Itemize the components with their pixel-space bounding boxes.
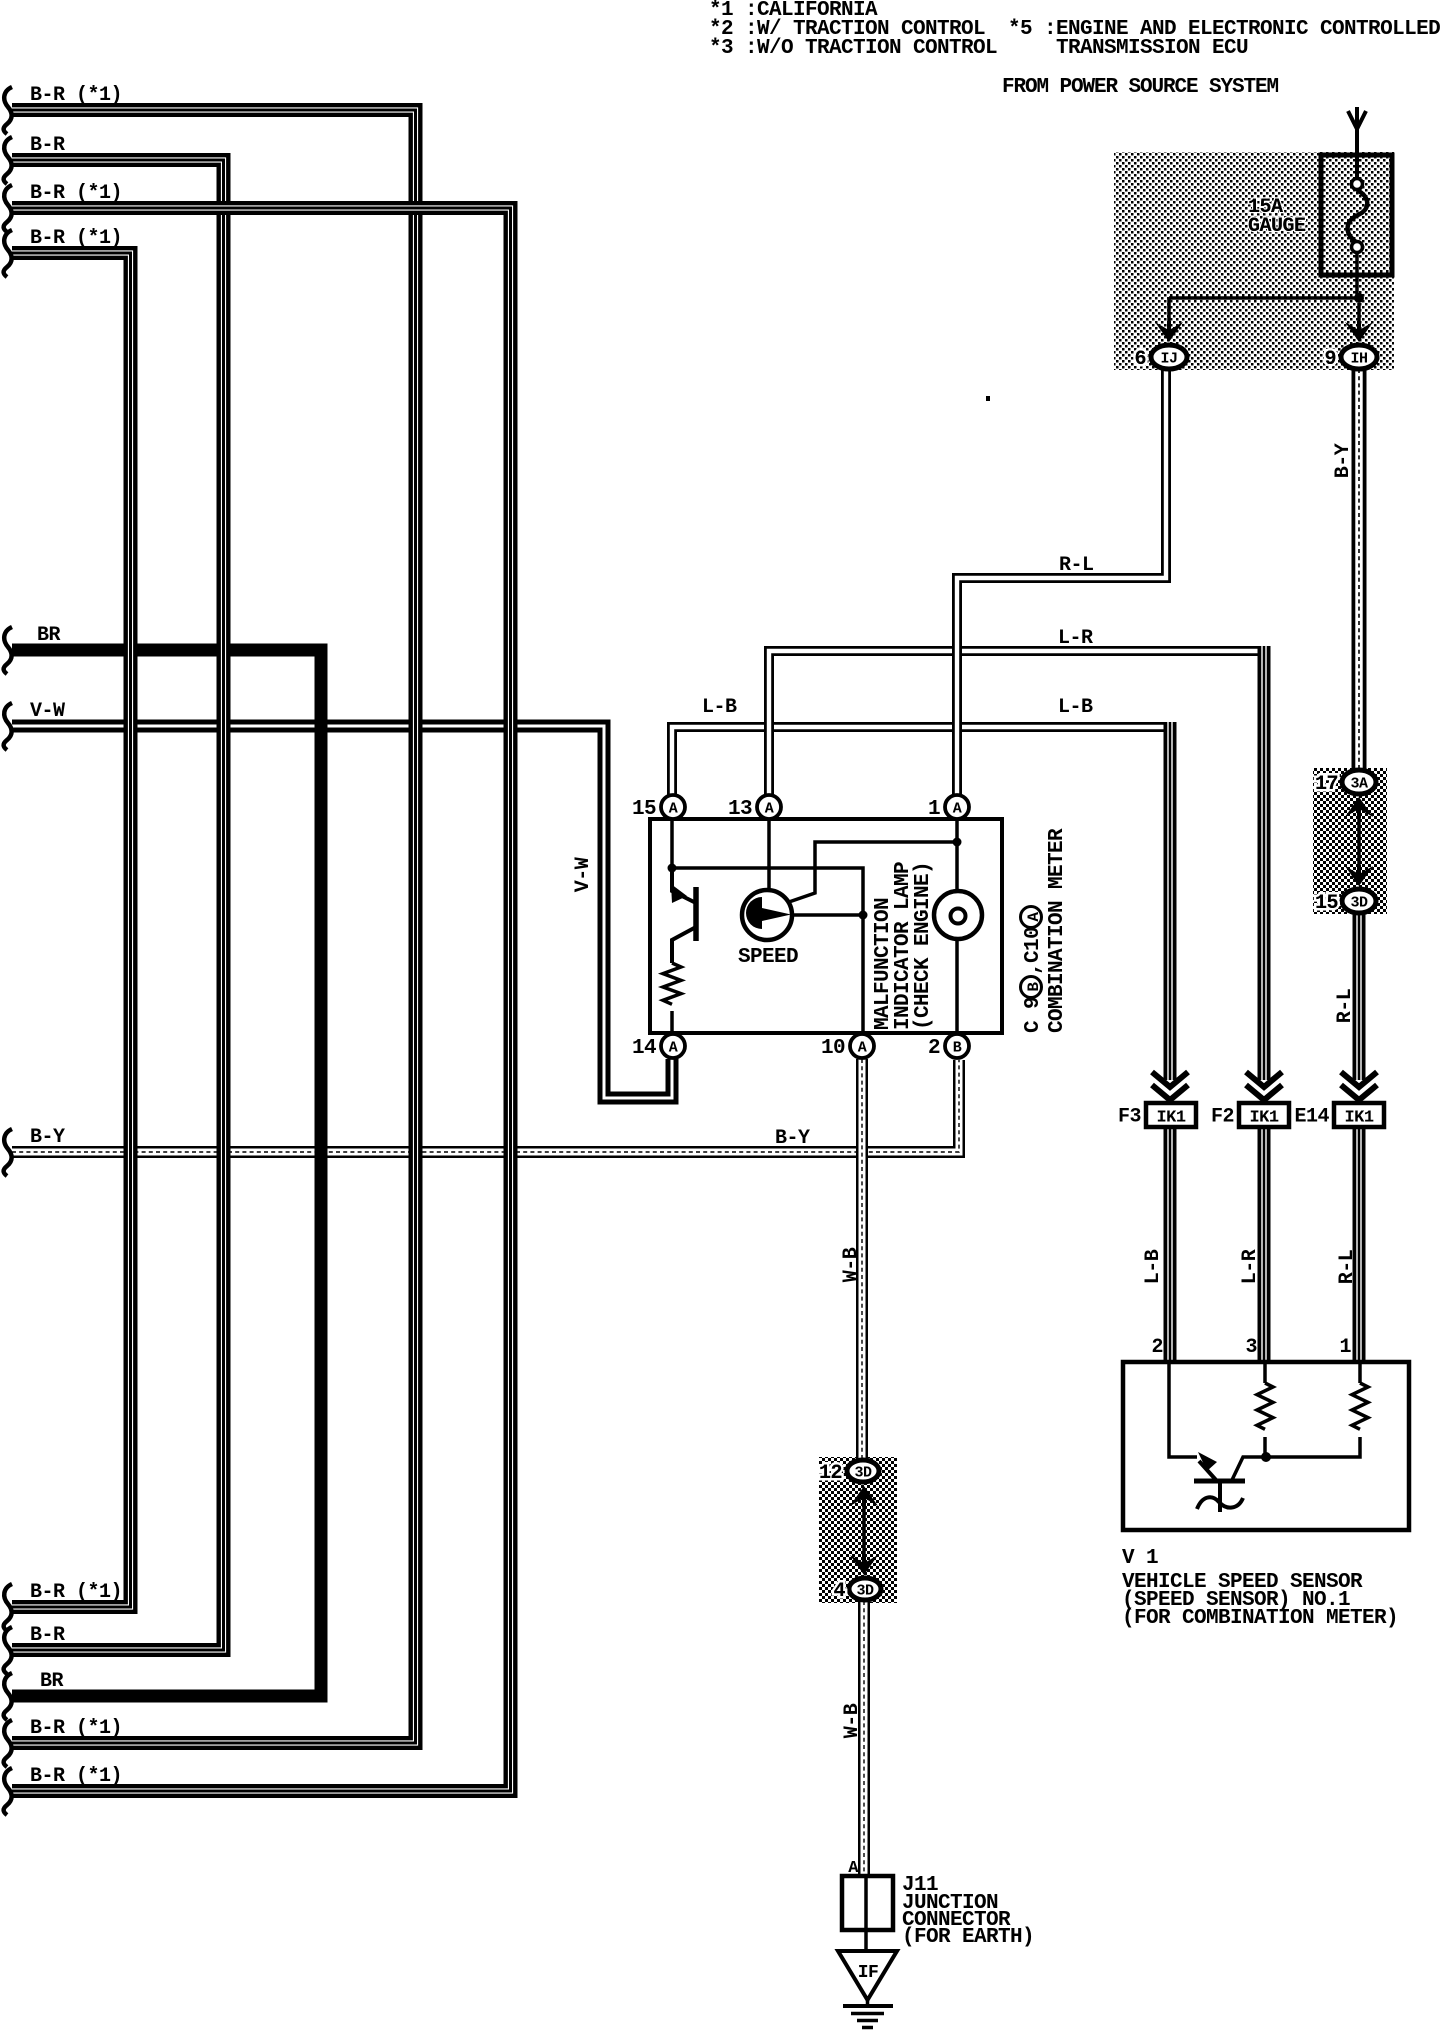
svg-text:L-R: L-R <box>1239 1249 1262 1284</box>
svg-text:L-B: L-B <box>1058 696 1093 719</box>
svg-text:L-R: L-R <box>1058 627 1093 650</box>
svg-text:L-B: L-B <box>702 696 737 719</box>
svg-text:3A: 3A <box>1350 776 1368 793</box>
svg-text:TRANSMISSION ECU: TRANSMISSION ECU <box>1056 37 1248 60</box>
svg-text:V 1: V 1 <box>1122 1547 1158 1570</box>
svg-text:4: 4 <box>833 1580 845 1603</box>
svg-text:13: 13 <box>728 798 752 821</box>
svg-text:R-L: R-L <box>1336 1250 1359 1285</box>
svg-text:W-B: W-B <box>841 1703 864 1738</box>
svg-text:BR: BR <box>40 1670 64 1693</box>
svg-text:(FOR EARTH): (FOR EARTH) <box>902 1926 1034 1949</box>
svg-text:B-R (*1): B-R (*1) <box>30 84 122 107</box>
svg-text:IJ: IJ <box>1160 351 1177 368</box>
svg-text:15: 15 <box>632 798 656 821</box>
svg-text:2: 2 <box>928 1037 940 1060</box>
svg-text:*3 :W/O TRACTION CONTROL: *3 :W/O TRACTION CONTROL <box>709 37 997 60</box>
svg-text:GAUGE: GAUGE <box>1248 215 1306 238</box>
svg-text:1: 1 <box>1339 1336 1351 1359</box>
svg-text:A: A <box>765 801 774 818</box>
svg-text:9: 9 <box>1324 348 1336 371</box>
svg-text:C 9: C 9 <box>1022 997 1045 1033</box>
svg-text:COMBINATION METER: COMBINATION METER <box>1046 828 1069 1033</box>
svg-text:V-W: V-W <box>30 700 65 723</box>
svg-text:B: B <box>953 1040 962 1057</box>
svg-text:B: B <box>1025 982 1043 992</box>
svg-text:3D: 3D <box>856 1583 874 1600</box>
svg-text:A: A <box>669 801 678 818</box>
svg-text:3D: 3D <box>854 1465 872 1482</box>
svg-text:B-R (*1): B-R (*1) <box>30 1581 122 1604</box>
svg-text:IH: IH <box>1350 351 1367 368</box>
svg-text:E14: E14 <box>1294 1106 1329 1129</box>
svg-text:B-R (*1): B-R (*1) <box>30 1717 122 1740</box>
svg-text:B-R (*1): B-R (*1) <box>30 1765 122 1788</box>
svg-text:B-Y: B-Y <box>775 1127 810 1150</box>
svg-text:B-R (*1): B-R (*1) <box>30 182 122 205</box>
svg-text:BR: BR <box>37 624 61 647</box>
svg-text:A: A <box>669 1040 678 1057</box>
svg-text:10: 10 <box>821 1037 845 1060</box>
svg-text:B-Y: B-Y <box>1332 443 1355 478</box>
svg-text:,C10: ,C10 <box>1022 927 1045 975</box>
svg-text:3D: 3D <box>1350 895 1368 912</box>
svg-text:W-B: W-B <box>840 1247 863 1282</box>
svg-text:R-L: R-L <box>1059 554 1094 577</box>
svg-text:6: 6 <box>1134 348 1146 371</box>
svg-text:17: 17 <box>1315 773 1338 796</box>
svg-text:L-B: L-B <box>1142 1249 1165 1284</box>
svg-text:3: 3 <box>1245 1336 1257 1359</box>
svg-text:2: 2 <box>1151 1336 1163 1359</box>
svg-text:B-R (*1): B-R (*1) <box>30 227 122 250</box>
svg-text:1: 1 <box>928 798 940 821</box>
svg-text:15: 15 <box>1315 892 1338 915</box>
svg-text:B-Y: B-Y <box>30 1126 65 1149</box>
svg-text:R-L: R-L <box>1334 989 1357 1024</box>
svg-text:(CHECK ENGINE): (CHECK ENGINE) <box>912 862 935 1030</box>
svg-text:(FOR COMBINATION METER): (FOR COMBINATION METER) <box>1122 1607 1398 1630</box>
svg-text:A: A <box>953 801 962 818</box>
svg-text:FROM POWER SOURCE SYSTEM: FROM POWER SOURCE SYSTEM <box>1002 76 1279 99</box>
svg-text:F2: F2 <box>1211 1106 1234 1129</box>
svg-text:F3: F3 <box>1118 1106 1141 1129</box>
svg-text:B-R: B-R <box>30 1624 65 1647</box>
svg-text:IF: IF <box>858 1963 879 1983</box>
svg-text:IK1: IK1 <box>1156 1109 1185 1128</box>
svg-text:SPEED: SPEED <box>738 946 798 969</box>
svg-text:B-R: B-R <box>30 134 65 157</box>
svg-text:A: A <box>858 1040 867 1057</box>
svg-text:14: 14 <box>632 1037 656 1060</box>
svg-text:A: A <box>1025 912 1043 922</box>
svg-text:IK1: IK1 <box>1344 1109 1373 1128</box>
svg-text:IK1: IK1 <box>1249 1109 1278 1128</box>
svg-text:12: 12 <box>819 1462 842 1485</box>
svg-text:V-W: V-W <box>572 857 595 892</box>
